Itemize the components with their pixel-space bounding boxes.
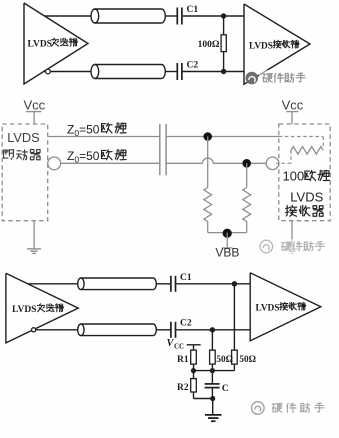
svg-text:VBB: VBB	[215, 246, 239, 260]
svg-text:Vcc: Vcc	[282, 97, 304, 112]
svg-text:LVDS: LVDS	[256, 303, 280, 313]
svg-text:Z0=50: Z0=50	[67, 149, 100, 165]
svg-text:50Ω: 50Ω	[216, 354, 233, 364]
svg-text:C: C	[222, 384, 229, 394]
svg-text:LVDS: LVDS	[12, 305, 36, 315]
svg-text:LVDS: LVDS	[249, 41, 273, 51]
svg-text:R1: R1	[177, 355, 189, 365]
svg-text:C2: C2	[180, 319, 192, 329]
svg-text:100Ω: 100Ω	[198, 40, 220, 50]
svg-text:R2: R2	[177, 383, 189, 393]
svg-text:C2: C2	[187, 61, 199, 71]
svg-text:100: 100	[283, 169, 305, 184]
svg-text:CC: CC	[174, 343, 184, 351]
svg-text:Z0=50: Z0=50	[67, 122, 100, 138]
svg-text:C1: C1	[180, 273, 192, 283]
svg-text:C1: C1	[187, 5, 199, 15]
svg-text:Vcc: Vcc	[24, 97, 46, 112]
svg-text:50Ω: 50Ω	[239, 354, 256, 364]
svg-text:LVDS: LVDS	[28, 40, 52, 50]
svg-text:LVDS: LVDS	[290, 190, 323, 205]
svg-text:LVDS: LVDS	[7, 130, 39, 145]
